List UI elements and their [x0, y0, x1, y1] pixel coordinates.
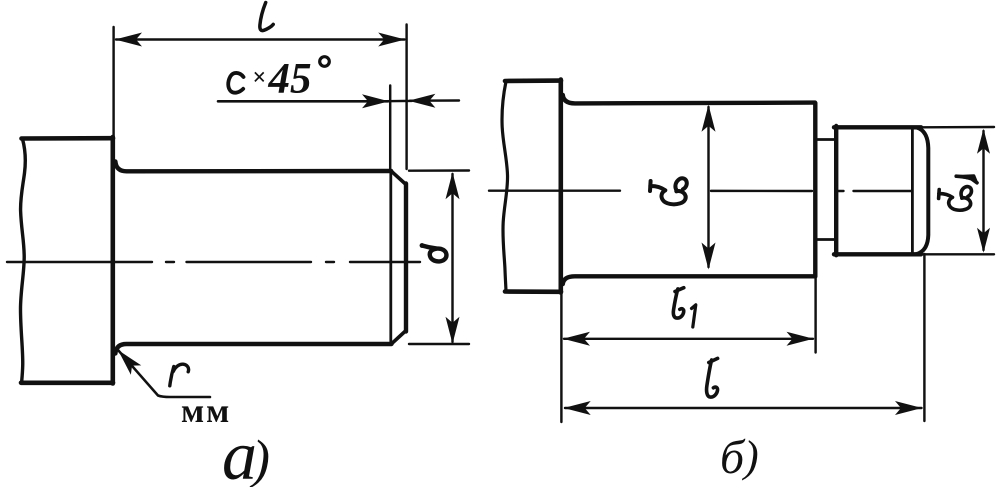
small step d1 chamfer edge vertical [911, 129, 914, 254]
flange A bottom edge [21, 380, 113, 385]
dimension d extension line bottom [409, 343, 469, 345]
label l1 subscript 1 [692, 305, 696, 327]
chamfer dimension line left part (underline of c x 45) [218, 100, 388, 103]
dimension l extension line right [405, 25, 407, 170]
shaft B large step bottom contour with fillet [563, 276, 815, 284]
shaft A bottom chamfer diagonal [392, 331, 407, 344]
dimension l arrow left [115, 33, 142, 47]
flange B bottom edge [505, 289, 561, 294]
svg-text:): ) [741, 432, 759, 481]
label l1 [673, 288, 683, 318]
dimension d line [451, 174, 453, 342]
dimension l extension line left [112, 27, 114, 136]
dimension l1 extension line left [560, 293, 562, 422]
neck groove bottom line [816, 238, 836, 241]
svg-text:45: 45 [268, 56, 312, 103]
fillet r leader line [118, 350, 210, 397]
dimension d1 arrow down [977, 228, 990, 253]
dimension d1 extension line bottom [921, 253, 994, 255]
dimension d (B) arrow down [702, 243, 716, 270]
dimension d1 arrow up [977, 129, 990, 154]
shaft B large step top contour with fillet [563, 95, 815, 103]
dimension l1 arrow right [787, 332, 814, 346]
flange B right edge [558, 80, 563, 293]
small step d1 top contour [834, 125, 921, 129]
dimension l1 line [564, 338, 813, 340]
chamfer dimension line right part [386, 99, 459, 102]
shaft A bottom contour with fillet r [115, 344, 391, 354]
label degree circle [320, 57, 330, 67]
dimension l line [116, 38, 405, 40]
flange A top edge [22, 136, 114, 141]
dimension l arrow right [378, 33, 405, 47]
fillet r leader arrow [113, 345, 141, 374]
svg-text:б: б [720, 431, 746, 484]
dimension l (B) arrow left [564, 401, 591, 415]
centerline B (dash-dot axis) [489, 189, 912, 192]
dimension d (B) line [707, 107, 709, 267]
shaft A chamfer edge vertical [389, 173, 392, 343]
chamfer arrow pointing left [408, 94, 435, 108]
label l (B) [707, 358, 718, 397]
svg-text:): ) [249, 429, 270, 487]
label c [228, 73, 243, 93]
shaft A top chamfer diagonal [391, 171, 406, 184]
shaft A end edge [404, 184, 408, 332]
flange B top edge [505, 78, 561, 83]
shaft B large step end edge [813, 103, 817, 277]
small step d1 rounded end cap [917, 128, 929, 255]
dimension d1 line [982, 131, 984, 250]
small step d1 bottom contour [834, 252, 921, 256]
dimension d extension line top [409, 169, 469, 172]
label r [170, 364, 189, 386]
dimension d arrow down [446, 317, 460, 344]
dimension l1 arrow left [563, 332, 590, 346]
label l (length of shaft) [260, 3, 273, 31]
label d (rotated) [420, 243, 425, 248]
dimension l (B) arrow right [895, 401, 922, 415]
chamfer arrow pointing right [362, 94, 389, 108]
dimension l1 extension line right [814, 278, 816, 353]
label d (B, rotated) [650, 178, 687, 204]
dimension l extension line right (B) [923, 254, 925, 421]
dimension d1 extension line top [921, 126, 994, 129]
neck groove top line [816, 138, 836, 141]
flange A right edge [111, 137, 116, 384]
chamfer dimension extension line [389, 86, 391, 171]
label d1 (rotated) [939, 176, 977, 210]
dimension l (B) line [565, 407, 922, 409]
flange A break line (wavy left edge) [21, 139, 26, 383]
small step d1 left edge [834, 126, 838, 255]
dimension d (B) arrow up [702, 105, 716, 132]
dimension d arrow up [446, 172, 460, 199]
svg-text:×: × [253, 65, 267, 91]
centerline A (dash-dot axis) [7, 261, 420, 263]
flange B break line (wavy left edge) [502, 82, 508, 292]
shaft A top contour with fillet [115, 162, 391, 172]
